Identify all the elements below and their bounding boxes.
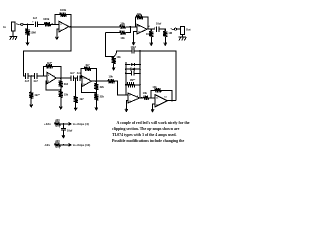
node hp junction — [113, 56, 115, 58]
wire R19 top — [150, 29, 152, 31]
wire C8 right — [159, 28, 165, 30]
svg-text:15k: 15k — [64, 93, 69, 97]
wire U7 feedback — [151, 90, 154, 98]
arrow to chips 4 — [63, 123, 71, 126]
wire C4 to C5 — [74, 77, 78, 79]
resistor R1 15M — [25, 27, 29, 37]
chassis ground input jack — [9, 37, 17, 40]
node U1 inverting — [51, 23, 53, 25]
node rail L r — [125, 84, 127, 86]
chassis ground output jack — [179, 37, 187, 40]
wire U7 plus — [153, 104, 155, 106]
node input junction — [27, 23, 29, 25]
resistor R3 100k — [59, 12, 67, 16]
capacitor C5 4n7 — [78, 75, 80, 81]
resistor R19 10k shunt — [149, 31, 153, 37]
svg-text:to chips (11): to chips (11) — [73, 143, 91, 147]
op-amp U7 — [155, 95, 167, 107]
svg-text:1M: 1M — [168, 31, 172, 35]
svg-text:100: 100 — [55, 139, 60, 143]
capacitor C3 4n7 — [35, 73, 37, 79]
svg-text:10uf: 10uf — [156, 22, 161, 26]
node U5 inv — [150, 97, 152, 99]
svg-text:A couple of red led's will wor: A couple of red led's will work nicely f… — [117, 121, 190, 125]
ground U1 plus — [55, 33, 58, 40]
output jack J2 — [181, 26, 185, 34]
wire U3 plus to divider — [81, 84, 96, 93]
wire -12v node — [61, 144, 64, 146]
svg-text:4n7: 4n7 — [25, 79, 30, 83]
diode D2 — [126, 68, 131, 70]
ground R19 — [150, 37, 153, 46]
resistor R13 1M — [126, 83, 136, 87]
node mix b — [135, 26, 137, 28]
wire 15M top — [27, 24, 29, 27]
wire clip left rail — [125, 62, 127, 95]
wire R10 top — [95, 81, 97, 83]
wire to out jack — [177, 28, 181, 30]
svg-text:100k: 100k — [60, 8, 67, 12]
svg-text:22k: 22k — [100, 94, 105, 98]
resistor R7 15k — [59, 91, 63, 98]
node filter1 mid — [30, 75, 32, 77]
wire U1 feedback — [55, 15, 59, 25]
input jack J1 — [11, 22, 15, 31]
node rail R r — [139, 84, 141, 86]
node rail L d1 — [125, 64, 127, 66]
wire R16 to node — [125, 26, 137, 28]
capacitor C2 4n7 — [26, 73, 28, 79]
node -12v — [63, 144, 65, 146]
op-amp U1 — [59, 21, 69, 32]
ground C9 — [62, 130, 65, 138]
resistor R6 2k2 — [59, 80, 63, 87]
ground R8 — [74, 103, 77, 110]
capacitor C7 10pF — [132, 48, 134, 53]
ground R11 — [95, 101, 98, 110]
svg-text:10k: 10k — [116, 55, 121, 59]
node rail R d2 — [139, 68, 141, 70]
ground R7 — [59, 98, 62, 109]
resistor R2 100k — [44, 22, 50, 26]
svg-text:10k: 10k — [146, 32, 151, 36]
resistor R11 22k — [94, 93, 98, 100]
ground R20 — [164, 37, 167, 46]
svg-text:22k: 22k — [100, 85, 105, 89]
wire U2 out — [56, 77, 71, 79]
wire U6 out — [147, 28, 155, 30]
resistor R21 10k — [154, 88, 162, 92]
wire U2 feedback — [44, 66, 46, 76]
wire U3 feedback — [81, 69, 84, 79]
resistor R23 100 — [54, 143, 60, 147]
capacitor C8 10uF — [157, 26, 159, 32]
capacitor C1 1nF — [35, 22, 37, 28]
svg-text:10k: 10k — [109, 75, 114, 79]
svg-text:4k7*: 4k7* — [34, 93, 39, 97]
node rail L d2 — [125, 68, 127, 70]
wire U1 out to mixer — [69, 26, 120, 28]
svg-text:10k: 10k — [120, 21, 125, 25]
wire U1 out down to filters — [23, 27, 71, 76]
wire clip right rail — [139, 51, 141, 98]
ground R15 — [112, 64, 115, 70]
wire R17 left — [106, 32, 120, 34]
svg-text:10k: 10k — [137, 12, 142, 16]
resistor R17 10k — [120, 31, 126, 35]
wire C3 to U2 — [37, 75, 47, 77]
resistor R10 22k — [94, 83, 98, 90]
wire jack stem — [12, 31, 14, 36]
wire R10 R11 — [95, 90, 97, 93]
wire mixer tap down — [106, 33, 114, 57]
wire C2 to C3 — [28, 75, 34, 77]
wire C1 to R2 — [38, 23, 45, 25]
resistor R15 10k shunt — [111, 57, 115, 63]
svg-text:to chips (4): to chips (4) — [73, 122, 89, 126]
ground R4 — [30, 99, 33, 107]
svg-text:2k2: 2k2 — [64, 82, 69, 86]
resistor R4 4k7* — [29, 91, 33, 99]
node U2 out — [60, 77, 62, 79]
node +12v — [63, 123, 65, 125]
svg-text:+12v: +12v — [44, 122, 51, 126]
op-amp U6 — [137, 24, 147, 34]
node U1 output — [70, 26, 72, 28]
node U3 out — [96, 80, 98, 82]
wire R6 top — [60, 78, 62, 80]
wire U4 plus — [126, 101, 127, 105]
capacitor C6 clip — [126, 72, 132, 74]
resistor R18 10k — [136, 15, 143, 19]
svg-text:15M: 15M — [30, 31, 36, 35]
wire R14 to U5 — [149, 97, 155, 99]
resistor R16 10k — [120, 25, 126, 29]
node divider U2 — [60, 89, 62, 91]
wire U7 out — [167, 100, 176, 102]
wire U2 plus to divider — [46, 81, 61, 90]
output plug circle — [174, 28, 176, 30]
svg-text:10k: 10k — [120, 36, 125, 40]
wire R12 to U4 — [115, 81, 128, 95]
svg-text:clipping section. The op-amps: clipping section. The op-amps shown are — [112, 127, 180, 131]
node rail R d1 — [139, 64, 141, 66]
node return rail — [139, 50, 141, 52]
resistor R5 4k7* — [45, 64, 53, 68]
resistor R22 100 — [54, 122, 60, 126]
ground U6 plus — [132, 35, 135, 45]
wire return line — [114, 51, 132, 57]
wire U6 feedback — [135, 17, 138, 27]
wire R17 right up — [125, 27, 130, 33]
wire C5 to U3 — [80, 77, 82, 79]
node U6 out — [150, 28, 152, 30]
wire jack2 stem — [181, 35, 183, 38]
node U4 out — [141, 97, 143, 99]
resistor R14 10k — [144, 96, 149, 100]
svg-text:Possible modifications include: Possible modifications include changing … — [112, 139, 184, 143]
svg-text:4k7: 4k7 — [79, 97, 84, 101]
resistor R20 1M — [163, 31, 167, 37]
svg-text:100: 100 — [55, 118, 60, 122]
svg-text:TL074 types with 3 of the 4 am: TL074 types with 3 of the 4 amps used. — [112, 133, 177, 137]
wire input node — [23, 23, 34, 25]
ground U7 plus — [151, 105, 154, 111]
wire +12v node — [61, 123, 64, 125]
node U7 out — [171, 100, 173, 102]
svg-text:10k: 10k — [143, 91, 148, 95]
resistor R8 4k7 — [73, 96, 77, 103]
wire U1 plus input — [57, 29, 59, 32]
node mix a — [130, 26, 132, 28]
capacitor C9 10uf — [61, 128, 66, 130]
wire U3 out — [91, 80, 107, 82]
node rail L cap — [125, 73, 127, 75]
op-amp U2 — [47, 72, 57, 84]
node filter2 mid — [75, 77, 77, 79]
svg-text:In: In — [3, 25, 6, 29]
wire filter1 mid down — [30, 76, 32, 91]
wire R6 R7 — [60, 88, 62, 91]
node rail R cap — [139, 73, 141, 75]
svg-text:1M**: 1M** — [130, 78, 136, 82]
wire squiggle out — [171, 28, 174, 31]
wire R20 top — [164, 29, 166, 31]
wire filter2 mid down — [75, 78, 77, 96]
op-amp U3 — [82, 76, 91, 86]
wire R2 to U1 — [51, 23, 59, 25]
ground 15M — [26, 37, 29, 45]
input plug circle — [21, 23, 23, 25]
svg-text:4n7: 4n7 — [70, 71, 75, 75]
wire U6 plus — [134, 32, 137, 35]
resistor R12 10k — [108, 79, 115, 83]
arrow to chips 11 — [63, 144, 71, 147]
wire squiggle to plug — [16, 23, 20, 26]
op-amp U4 — [128, 93, 140, 103]
svg-text:-12v: -12v — [44, 143, 50, 147]
svg-text:Out: Out — [186, 28, 191, 32]
resistor R9 4k7 — [83, 66, 91, 70]
capacitor C4 4n7 — [71, 75, 73, 81]
svg-text:100k: 100k — [43, 17, 50, 21]
ground U4 plus — [125, 105, 128, 112]
node divider U3 — [96, 92, 98, 94]
svg-text:10uf: 10uf — [67, 128, 72, 132]
wire U4 out — [140, 97, 144, 99]
svg-text:4n7: 4n7 — [33, 79, 38, 83]
node out net — [164, 28, 166, 30]
wire decouple cap — [62, 124, 64, 128]
diode D1 — [126, 64, 131, 66]
